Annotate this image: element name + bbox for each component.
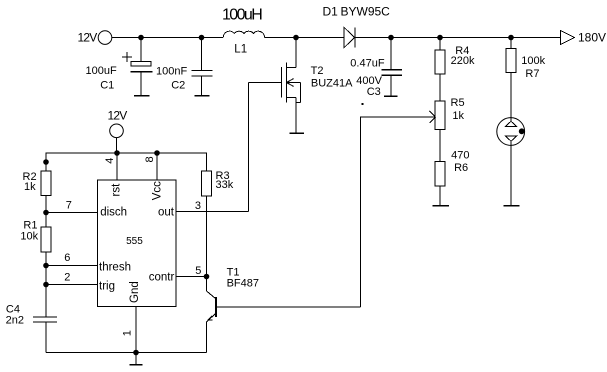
resistor R2 1k: [23, 171, 52, 227]
wire pin 8: [156, 153, 158, 180]
svg-text:2n2: 2n2: [6, 314, 24, 326]
svg-text:12V: 12V: [78, 30, 98, 44]
resistor R7 100k: [506, 38, 546, 118]
resistor R3 33k: [202, 170, 234, 277]
svg-text:5: 5: [195, 265, 201, 277]
diode D1 BYW95C: [323, 4, 391, 47]
ground C3: [384, 95, 398, 97]
svg-text:3: 3: [195, 200, 201, 212]
ground R6: [433, 205, 450, 207]
wire pin 3 out: [176, 211, 249, 213]
svg-text:100k: 100k: [521, 55, 545, 67]
svg-text:thresh: thresh: [99, 261, 131, 273]
svg-text:1: 1: [122, 330, 134, 336]
supply source 12V top-left: [78, 30, 112, 44]
svg-text:BUZ41A: BUZ41A: [311, 77, 353, 89]
svg-text:4: 4: [104, 158, 116, 164]
stray dot mark: [362, 103, 364, 105]
svg-text:R6: R6: [454, 162, 468, 174]
svg-text:Vcc: Vcc: [152, 181, 164, 200]
svg-text:C2: C2: [171, 80, 185, 92]
svg-text:100nF: 100nF: [156, 65, 187, 77]
svg-text:180V: 180V: [578, 31, 606, 45]
svg-text:BYW95C: BYW95C: [341, 4, 391, 18]
svg-text:100uH: 100uH: [222, 7, 262, 24]
svg-text:contr: contr: [149, 271, 175, 283]
resistor R4 220k: [435, 38, 475, 102]
wire pin 5 contr: [176, 276, 207, 278]
svg-text:100uF: 100uF: [86, 65, 117, 77]
node junction R7: [508, 35, 514, 41]
svg-text:T2: T2: [311, 65, 324, 77]
svg-text:2: 2: [64, 272, 70, 284]
svg-text:D1: D1: [323, 4, 339, 18]
svg-text:470: 470: [451, 150, 469, 162]
svg-text:BF487: BF487: [227, 278, 259, 290]
svg-text:33k: 33k: [216, 179, 234, 191]
ground C2: [195, 95, 210, 97]
svg-text:C3: C3: [367, 86, 381, 98]
capacitor C3 0.47uF 400V: [350, 38, 402, 98]
output terminal 180V: [561, 31, 607, 45]
wire pin 1: [135, 307, 137, 353]
wire pin 7: [46, 212, 98, 214]
svg-text:6: 6: [64, 252, 70, 264]
node junction pin1 ground: [133, 350, 139, 356]
svg-text:out: out: [158, 207, 175, 219]
capacitor C1 100uF polarized: [86, 38, 153, 96]
potentiometer R5 1k: [435, 97, 465, 162]
node junction pin2: [43, 282, 49, 288]
node junction pin8: [154, 150, 160, 156]
svg-text:rst: rst: [110, 183, 122, 197]
svg-text:C1: C1: [100, 79, 114, 91]
transistor T2 MOSFET BUZ41A: [249, 38, 354, 134]
node junction T2 drain: [293, 35, 299, 41]
node junction R2 top: [43, 159, 49, 165]
node junction C1: [138, 35, 144, 41]
svg-text:trig: trig: [99, 280, 115, 292]
wire top rail: source to L1: [112, 37, 224, 39]
svg-text:220k: 220k: [451, 55, 475, 67]
wire R5 wiper feedback from T1 base: [361, 111, 436, 307]
svg-text:12V: 12V: [108, 109, 128, 123]
svg-text:1k: 1k: [24, 181, 36, 193]
resistor R1 10k: [20, 219, 51, 316]
capacitor C4 2n2: [6, 303, 57, 352]
ground 555: [130, 353, 143, 365]
ground C1: [134, 95, 150, 97]
svg-text:R7: R7: [525, 68, 539, 80]
transistor T1 BF487: [207, 266, 361, 352]
svg-text:Gnd: Gnd: [129, 281, 141, 303]
node junction T1 collector: [204, 274, 210, 280]
resistor R6 470: [435, 150, 469, 206]
svg-text:0.47uF: 0.47uF: [350, 57, 385, 69]
svg-text:10k: 10k: [20, 231, 38, 243]
svg-text:7: 7: [66, 200, 72, 212]
wire T2 gate riser from 555 out: [248, 83, 250, 212]
svg-text:R5: R5: [451, 97, 465, 109]
node junction pin4: [114, 150, 120, 156]
svg-text:T1: T1: [227, 266, 240, 278]
node junction C3: [388, 35, 394, 41]
ground T2 source: [290, 132, 305, 134]
IC U1 555 timer: [98, 180, 177, 307]
node junction R4: [437, 35, 443, 41]
wire pin 6: [46, 265, 98, 267]
wire bottom rail: [46, 352, 207, 354]
node junction pin7: [43, 210, 49, 216]
svg-text:disch: disch: [100, 207, 127, 219]
neon lamp indicator: [497, 118, 525, 206]
supply source 12V for 555: [108, 109, 128, 154]
wire pin 2: [46, 284, 98, 286]
wire pin 4: [116, 153, 118, 180]
wire top rail: D1 to 180V triangle: [355, 37, 561, 39]
capacitor C2 100nF: [156, 38, 213, 96]
svg-text:1k: 1k: [452, 110, 464, 122]
svg-text:L1: L1: [234, 44, 247, 56]
svg-text:555: 555: [126, 236, 143, 247]
svg-text:8: 8: [144, 156, 156, 162]
wire top rail: L1 to D1: [265, 37, 345, 39]
ground lamp: [504, 205, 520, 207]
inductor L1 100uH: [222, 7, 265, 56]
node junction pin6: [43, 263, 49, 269]
wire 555 supply rail: [46, 153, 207, 171]
node junction C2: [199, 35, 205, 41]
